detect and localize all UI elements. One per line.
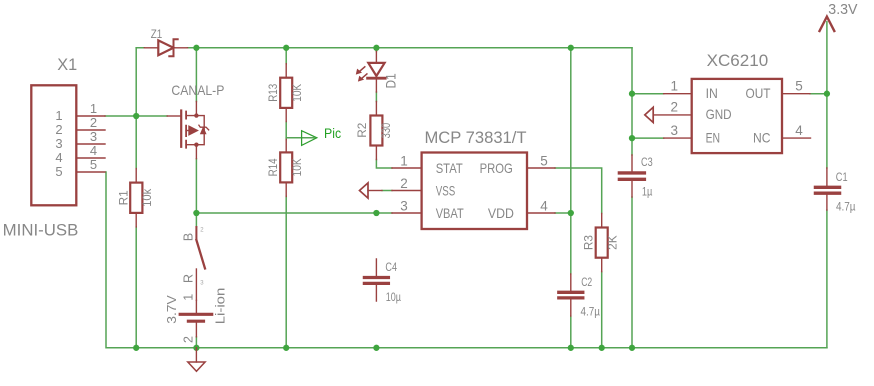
svg-text:2: 2 [671,100,679,115]
svg-text:2K: 2K [605,235,619,250]
svg-text:R13: R13 [266,83,280,101]
svg-text:4: 4 [55,150,62,165]
svg-text:3: 3 [55,136,62,151]
svg-text:3: 3 [90,129,97,144]
svg-text:R2: R2 [355,123,369,138]
svg-text:R14: R14 [266,158,280,176]
svg-text:1: 1 [181,294,195,301]
svg-text:GND: GND [706,106,732,122]
svg-text:10K: 10K [290,84,304,102]
svg-text:5: 5 [795,78,803,93]
svg-text:Li-ion: Li-ion [214,288,228,325]
svg-text:C2: C2 [581,275,592,289]
svg-text:4.7µ: 4.7µ [836,199,856,213]
svg-text:PROG: PROG [480,160,513,176]
svg-text:IN: IN [706,85,718,101]
svg-text:5: 5 [55,164,62,179]
svg-text:1: 1 [671,78,679,93]
svg-text:EN: EN [706,129,721,145]
svg-text:VSS: VSS [436,183,456,199]
svg-text:X1: X1 [57,56,77,74]
svg-text:1: 1 [90,101,97,116]
svg-text:5: 5 [90,157,97,172]
svg-text:10K: 10K [290,158,304,176]
svg-text:VBAT: VBAT [436,205,464,221]
svg-text:STAT: STAT [436,160,463,176]
svg-text:10µ: 10µ [386,290,401,304]
svg-text:3: 3 [400,199,408,214]
svg-text:2: 2 [400,176,408,191]
svg-text:330: 330 [379,123,393,139]
svg-text:CANAL-P: CANAL-P [171,83,224,98]
svg-text:MCP 73831/T: MCP 73831/T [425,128,527,147]
svg-text:4: 4 [795,123,803,138]
svg-text:NC: NC [753,129,771,145]
svg-text:OUT: OUT [746,85,771,101]
svg-text:MINI-USB: MINI-USB [3,221,79,239]
svg-text:4: 4 [90,143,97,158]
svg-text:4: 4 [540,199,548,214]
svg-text:R1: R1 [116,190,130,205]
svg-text:R3: R3 [581,235,595,251]
svg-text:B: B [181,233,195,241]
svg-text:VDD: VDD [488,205,514,221]
svg-text:4.7µ: 4.7µ [581,305,601,319]
svg-text:2: 2 [90,115,97,130]
svg-text:3: 3 [671,123,679,138]
svg-text:3.3V: 3.3V [828,1,857,18]
svg-text:C1: C1 [836,170,848,184]
svg-text:XC6210: XC6210 [707,51,769,70]
svg-text:D1: D1 [383,73,399,88]
svg-text:1: 1 [55,108,62,123]
svg-text:1: 1 [400,154,408,169]
svg-text:3.7V: 3.7V [164,295,179,324]
svg-text:C3: C3 [641,155,653,169]
svg-text:1µ: 1µ [642,185,653,199]
svg-text:R: R [181,274,195,283]
svg-text:10k: 10k [140,189,154,207]
svg-text:C4: C4 [385,260,397,274]
svg-text:2: 2 [55,122,62,137]
svg-text:2: 2 [181,336,195,343]
svg-text:Pic: Pic [324,126,341,141]
svg-text:Z1: Z1 [151,27,163,41]
svg-text:5: 5 [540,154,548,169]
